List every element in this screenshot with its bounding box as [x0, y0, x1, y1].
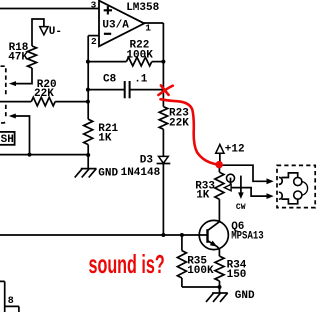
resistor R20: [0, 101, 31, 103]
wire arrow 2 down to node: [15, 116, 30, 155]
resistor R18: [28, 46, 37, 68]
svg-text:D3: D3: [140, 155, 154, 167]
jack contact 2: [279, 192, 282, 199]
node C8 right / output net: [161, 88, 165, 92]
svg-text:.1: .1: [134, 74, 148, 86]
diode D3: [159, 156, 169, 163]
op-amp U3/A LM358: [99, 1, 144, 47]
wire pin1 output: [144, 22, 163, 24]
svg-text:U3/A: U3/A: [102, 20, 129, 32]
node C8 left: [86, 88, 90, 92]
boxed label SH (cut off): [0, 132, 15, 145]
pot wiper arrow: [230, 178, 232, 188]
wire pin2 stub: [88, 35, 99, 37]
pot wiper terminal circle: [227, 174, 235, 182]
dashed box 1 (off-page pot): [1, 66, 6, 96]
wire D3 cathode to base net: [162, 164, 164, 236]
jack switch arc: [302, 182, 308, 196]
node wire junction: [28, 153, 32, 157]
power symbol U- (down triangle): [40, 27, 48, 35]
power symbol +12 (up triangle): [216, 144, 224, 153]
wire wiper to connector pin 2: [231, 188, 267, 197]
arrowhead to connector pin 1: [267, 178, 274, 184]
red X mark: [158, 85, 172, 95]
red curve annotation: [161, 99, 219, 164]
arrowhead to connector pin 2: [267, 193, 274, 199]
svg-text:SH: SH: [1, 134, 14, 146]
ground GND bottom: [212, 292, 228, 294]
svg-text:LM358: LM358: [126, 2, 159, 14]
wire hook to U- symbol: [32, 19, 44, 46]
svg-text:1K: 1K: [196, 190, 210, 202]
node +12/R33: [217, 163, 221, 167]
node R20/R21/pin2: [86, 100, 90, 104]
svg-text:1K: 1K: [98, 133, 112, 145]
resistor R35: [181, 235, 183, 251]
svg-text:GND: GND: [235, 290, 255, 302]
svg-text:C8: C8: [103, 74, 117, 86]
wire +12 to node: [219, 153, 221, 165]
svg-text:+12: +12: [225, 144, 245, 156]
dashed box 2 (off-page pot): [1, 105, 6, 123]
svg-text:22K: 22K: [34, 88, 54, 100]
resistor R22: [88, 61, 126, 63]
wire pin3 input from left edge: [0, 8, 99, 10]
wire R33 top to connector pin 1: [219, 165, 267, 181]
svg-text:8: 8: [8, 296, 14, 307]
wire R18 to pot wiper arrow: [15, 68, 32, 84]
node R22 left: [86, 60, 90, 64]
svg-text:47K: 47K: [8, 52, 28, 64]
wire R23 to D3: [162, 129, 164, 156]
node R34/ground: [218, 285, 222, 289]
svg-text:GND: GND: [98, 167, 118, 179]
arrowhead at dashed box 2: [9, 114, 16, 119]
wire output vertical: [162, 23, 164, 107]
svg-text:100K: 100K: [126, 50, 153, 62]
svg-text:U-: U-: [49, 26, 62, 38]
resistor R34: [215, 256, 224, 281]
off-page connector pin 8: [0, 281, 19, 312]
svg-text:2: 2: [91, 36, 97, 47]
svg-text:22K: 22K: [169, 118, 189, 130]
wire R33 bottom to collector: [218, 199, 220, 222]
jack contact 1: [279, 177, 282, 184]
CW rotation arrow: [240, 176, 242, 193]
svg-text:CW: CW: [236, 203, 246, 212]
resistor R33 (pot): [218, 165, 220, 172]
ground GND left: [81, 168, 97, 170]
svg-text:3: 3: [91, 0, 97, 10]
svg-text:100K: 100K: [187, 265, 214, 277]
svg-text:sound is?: sound is?: [89, 249, 165, 279]
transistor Q6: [199, 220, 228, 249]
wire inverting node vertical: [87, 36, 89, 120]
wire emitter net bottom: [182, 286, 220, 288]
svg-text:MPSA13: MPSA13: [231, 231, 264, 243]
node R35 tap: [180, 233, 184, 237]
node D3/base net: [161, 233, 165, 237]
wire left net at y=154.6: [0, 154, 88, 156]
resistor R23: [159, 107, 167, 130]
svg-text:1: 1: [145, 22, 151, 33]
node R21 bottom: [86, 153, 90, 157]
connector dashed box: [277, 165, 315, 207]
resistor R21: [84, 119, 93, 144]
node R22 right: [161, 60, 165, 64]
svg-text:150: 150: [227, 269, 247, 281]
svg-text:1N4148: 1N4148: [121, 167, 161, 179]
capacitor C8: [88, 89, 124, 91]
wire base net horizontal: [0, 234, 208, 236]
wire R21 bottom to ground: [87, 145, 89, 169]
arrowhead at dashed box 1: [9, 81, 16, 86]
